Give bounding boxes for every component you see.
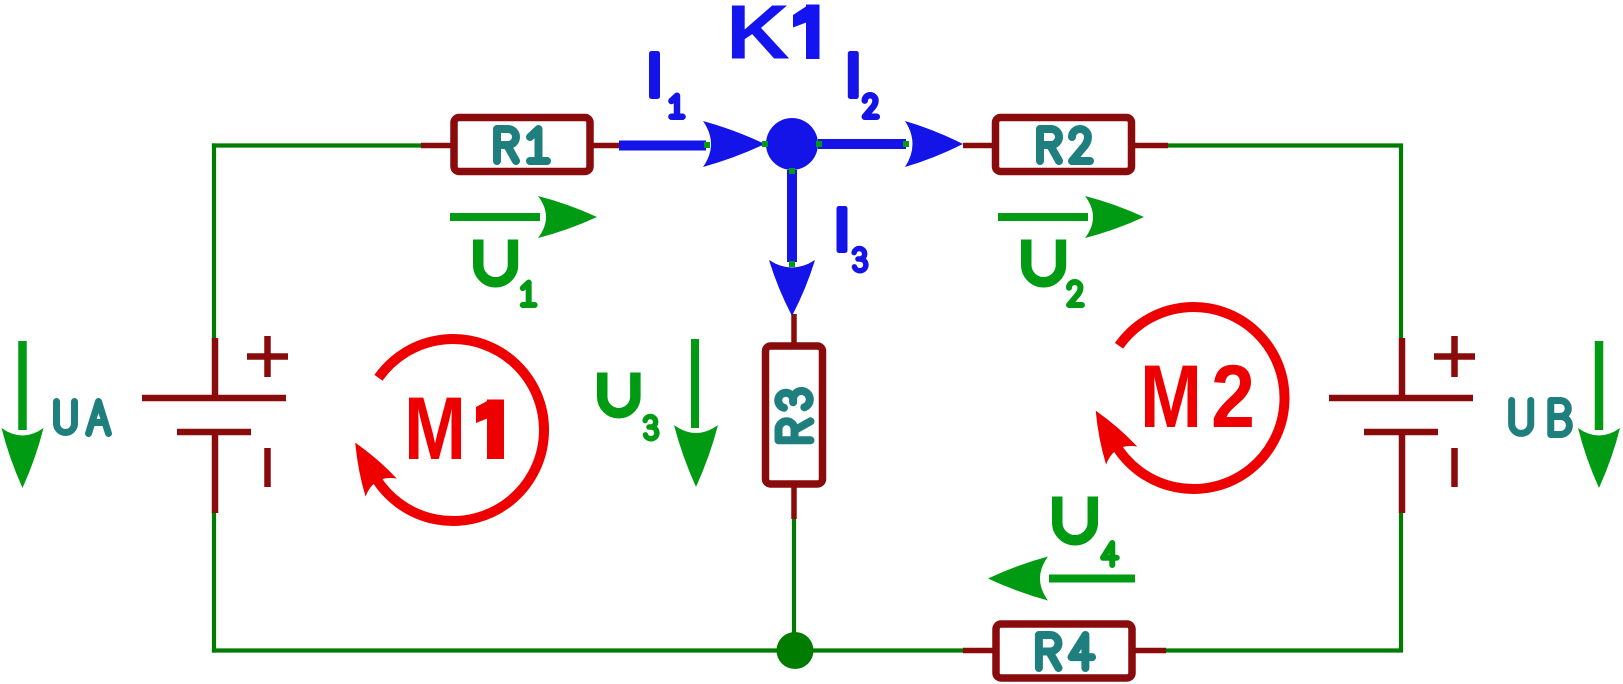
label I3 — [837, 206, 866, 271]
current arrow I3 — [769, 170, 815, 316]
voltage arrow U4 — [988, 557, 1135, 601]
battery UB — [1329, 336, 1475, 513]
voltage arrow U1 — [450, 196, 597, 238]
svg-text:M: M — [404, 378, 466, 478]
wire bottom-middle (junction to R4) — [795, 648, 963, 652]
node K1 — [766, 118, 818, 170]
wire right rail bottom (battery UB to bottom corner) — [1399, 513, 1403, 651]
resistor R1 — [421, 118, 619, 172]
resistor R2 — [963, 118, 1168, 172]
mesh arrow M2 — [1096, 307, 1285, 489]
junction node (bottom) — [777, 632, 814, 669]
wire top-left (battery UA to R1) — [212, 143, 421, 338]
label U3 — [602, 373, 657, 439]
label I2 — [848, 51, 877, 117]
wire bottom-right (R4 to battery UB) — [1166, 648, 1403, 652]
label K1 — [726, 0, 820, 76]
label U4 — [1057, 497, 1116, 566]
wire R3 to junction node — [792, 519, 796, 651]
label U2 — [1026, 240, 1082, 306]
voltage arrow UA — [2, 341, 44, 488]
resistor R4 — [963, 624, 1166, 678]
label UA — [57, 402, 109, 434]
voltage arrow U2 — [998, 196, 1144, 238]
voltage arrow UB — [1578, 341, 1620, 488]
label I1 — [649, 51, 683, 117]
wire bottom-left (to junction node) — [212, 648, 795, 652]
label UB — [1512, 401, 1570, 435]
label U1 — [478, 240, 534, 305]
current arrow I1 — [619, 121, 765, 167]
current arrow I2 — [818, 121, 963, 167]
battery UA — [142, 336, 288, 513]
wire right rail top (R2 to battery UB) — [1168, 146, 1403, 339]
wire junction dots — [704, 141, 909, 267]
svg-text:K: K — [726, 0, 790, 76]
voltage arrow U3 — [674, 339, 718, 487]
svg-text:2: 2 — [1211, 346, 1255, 446]
wire left rail (battery UA to bottom corner) — [212, 513, 216, 653]
mesh arrow M1 — [355, 339, 544, 521]
svg-text:M: M — [1140, 346, 1202, 446]
resistor R3 — [766, 314, 823, 519]
